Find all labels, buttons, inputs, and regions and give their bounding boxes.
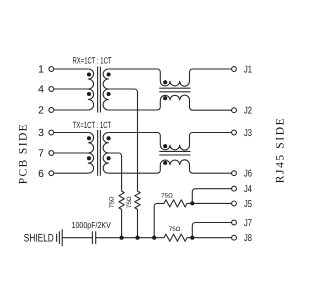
svg-text:J6: J6 [244, 169, 252, 180]
svg-text:6: 6 [38, 169, 44, 180]
svg-text:J8: J8 [244, 233, 252, 244]
svg-text:PCB SIDE: PCB SIDE [17, 124, 29, 184]
svg-text:TX=1CT : 1CT: TX=1CT : 1CT [73, 120, 112, 130]
svg-text:J1: J1 [244, 65, 252, 76]
svg-text:2: 2 [38, 106, 44, 117]
svg-text:J7: J7 [244, 218, 252, 229]
svg-text:75Ω: 75Ω [161, 192, 173, 199]
svg-text:J3: J3 [244, 128, 252, 139]
svg-text:1: 1 [38, 65, 44, 76]
svg-text:RX=1CT : 1CT: RX=1CT : 1CT [73, 55, 112, 65]
svg-text:RJ45 SIDE: RJ45 SIDE [275, 118, 287, 183]
svg-text:75Ω: 75Ω [109, 196, 116, 208]
svg-text:75Ω: 75Ω [169, 226, 181, 233]
svg-text:4: 4 [38, 85, 44, 96]
svg-text:3: 3 [38, 128, 44, 139]
svg-text:J4: J4 [244, 184, 252, 195]
svg-text:J5: J5 [244, 199, 252, 210]
svg-text:J2: J2 [244, 106, 252, 117]
svg-text:7: 7 [38, 149, 44, 160]
svg-text:1000pF/2KV: 1000pF/2KV [72, 220, 111, 230]
svg-text:75Ω: 75Ω [126, 196, 133, 208]
svg-text:SHIELD: SHIELD [24, 233, 54, 245]
